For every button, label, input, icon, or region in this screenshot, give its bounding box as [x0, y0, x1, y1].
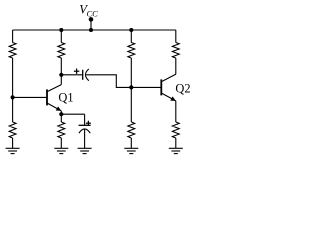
wire: R7 to Q2 collector [175, 58, 177, 74]
node: Q1 collector / C1 junction [59, 73, 63, 77]
transistor Q1 emitter lead with arrow [47, 103, 61, 111]
wire: emitter node to C2 [61, 113, 84, 115]
resistor R3 (Q1 collector load) [58, 43, 65, 59]
wire: C2 to ground [84, 129, 86, 148]
transistor Q1 collector lead [47, 85, 61, 92]
label + (C2 polarity) [86, 122, 91, 124]
transistor Q1 base bar [46, 89, 48, 105]
ground (C2) [78, 147, 92, 149]
wire: C1 to Q2 base (jog) [86, 75, 161, 88]
svg-text:Q1: Q1 [58, 91, 73, 105]
resistor R8 (Q2 emitter) [172, 122, 179, 138]
resistor R6 (Q2 bias lower) [128, 122, 135, 138]
node: Q1 emitter junction [59, 112, 63, 116]
transistor Q2 base bar [160, 79, 162, 95]
wire: R3 to Q1 collector [60, 58, 62, 85]
wire: R4 to ground [60, 138, 62, 148]
wire: rail corner to R7 [175, 30, 177, 43]
ground (R6) [124, 147, 138, 149]
wire: R8 to ground [175, 138, 177, 148]
wire: rail to R3 [60, 30, 62, 43]
wire: rail to R5 [130, 30, 132, 43]
wire: Vcc top rail [13, 29, 176, 31]
ground (R4) [54, 147, 68, 149]
transistor Q2 collector lead [161, 74, 176, 82]
svg-text:Q2: Q2 [175, 81, 190, 95]
wire: R6 to ground [130, 138, 132, 148]
node: rail junction at Vcc stub [89, 28, 93, 32]
wire: Q1 base wire [13, 96, 47, 98]
wire: Q1 emitter down [60, 111, 62, 122]
wire: collector node to C1 [61, 74, 82, 76]
resistor R5 (Q2 bias upper) [128, 43, 135, 59]
capacitor C1 (coupling, polarized) [82, 70, 84, 80]
resistor R7 (Q2 collector load) [172, 43, 179, 59]
svg-text:CC: CC [87, 8, 99, 18]
node: Q1 base junction [11, 95, 15, 99]
node: Q2 base junction [129, 85, 133, 89]
ground (R8) [169, 147, 183, 149]
wire: R2 to ground [12, 138, 14, 148]
power Vcc terminal dot and stub [89, 17, 94, 22]
node: rail junction col2 [59, 28, 63, 32]
capacitor C2 (emitter bypass, polarized) [79, 124, 91, 126]
wire: R5 to Q2 base node [130, 58, 132, 122]
wire: Q2 emitter down [175, 101, 177, 122]
wire: rail to R1 [12, 30, 14, 43]
ground (R2) [6, 147, 20, 149]
node: rail junction col3 [129, 28, 133, 32]
transistor Q2 emitter lead with arrow [161, 93, 176, 101]
resistor R2 (bias divider lower) [9, 122, 16, 138]
wire: R1 to Q1 base node [12, 58, 14, 122]
label + (C1 polarity) [74, 70, 79, 72]
resistor R4 (Q1 emitter) [58, 122, 65, 138]
resistor R1 (bias divider upper) [9, 43, 16, 59]
